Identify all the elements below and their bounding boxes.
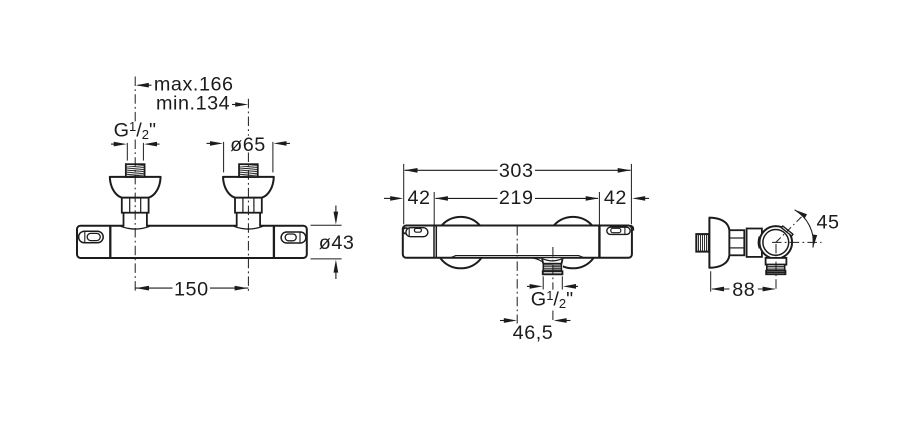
dimension 42 left outside arrow (384, 196, 403, 201)
svg-text:46,5: 46,5 (513, 322, 554, 344)
dimension ø43 label (319, 232, 355, 254)
right view: horizontal centerline (772, 241, 822, 243)
svg-text:ø43: ø43 (319, 232, 355, 254)
dimension 46,5 arrows (500, 318, 571, 323)
svg-text:219: 219 (499, 187, 534, 209)
dimension ø43 arrows (334, 206, 339, 280)
right view: body boss arc (758, 236, 759, 248)
dimension 219 label (499, 187, 534, 209)
svg-text:45: 45 (817, 212, 840, 234)
right view: vertical centerline (775, 244, 777, 292)
right view: outlet collar (766, 258, 787, 265)
svg-text:42: 42 (407, 187, 430, 209)
middle view: right joint line (598, 226, 600, 258)
dimension G1/2 left view arrows (111, 142, 160, 147)
dimension ø65 extension lines (224, 142, 273, 173)
left view: left stem adjusting sleeve (122, 198, 149, 213)
svg-text:ø65: ø65 (230, 134, 266, 156)
dimension min.134 arrow (232, 102, 248, 107)
dimension min.134 label (156, 93, 230, 115)
middle view: outlet union (532, 258, 563, 275)
right view: wall escutcheon bell (709, 218, 729, 268)
right view: valve body cap (747, 229, 762, 257)
middle view: left wall-flange emblem (403, 228, 428, 237)
svg-text:42: 42 (604, 187, 627, 209)
dimension 42 right label (604, 187, 627, 209)
dimension 150 line (135, 286, 248, 291)
dimension ø65 arrows (207, 141, 291, 146)
dimension max.166 arrow (136, 83, 152, 88)
dimension G1/2 middle extension lines (543, 276, 562, 289)
left view: left end-cap emblem (79, 231, 104, 243)
dimension 88 line (711, 287, 776, 292)
dimension 219 line (435, 196, 599, 201)
dimension 150 label (174, 278, 209, 300)
right view: outlet thread (767, 265, 785, 271)
right view: adjusting sleeve (729, 230, 744, 255)
dimension 42 left label (407, 187, 430, 209)
left view: right stem fillet arc in bar (234, 226, 263, 229)
right view: 45-degree axis line (776, 216, 802, 242)
middle view: outlet centerline (552, 247, 554, 323)
dimension 42 right outside arrow (632, 196, 649, 201)
left view: right stem neck (237, 213, 260, 227)
left view: left stem threaded inlet nipple (126, 164, 145, 177)
middle view: body centerline (516, 226, 518, 324)
dimension ø65 label (230, 134, 266, 156)
svg-text:303: 303 (499, 160, 534, 182)
left view: right end-cap joint line (273, 226, 275, 258)
svg-text:88: 88 (732, 279, 755, 301)
dimension ø43 extension lines (311, 225, 342, 259)
middle view: right handle knob circle (547, 217, 598, 268)
left view: left stem centerline (134, 77, 136, 292)
left view: left stem escutcheon (110, 177, 161, 198)
middle view: left handle knob circle (435, 217, 486, 268)
dimension G1/2 left view extension lines (127, 143, 143, 161)
dimension G1/2 left view label (114, 119, 156, 142)
svg-text:150: 150 (174, 278, 209, 300)
right view: knob tab chamfer (781, 226, 793, 236)
left view: right stem centerline (247, 99, 249, 291)
middle view: left joint double line (434, 226, 436, 258)
left view: right stem escutcheon (223, 177, 274, 198)
dimension 303 line (405, 168, 631, 173)
dimension 45 label (817, 212, 840, 234)
dimension G1/2 middle label (531, 288, 573, 311)
dimension max.166 label (154, 73, 234, 95)
left view: right stem adjusting sleeve (235, 198, 262, 213)
dimension G1/2 middle arrows (527, 284, 578, 289)
dimension 46,5 label (513, 322, 554, 344)
right view: knob inner circle (763, 230, 789, 256)
dimension 303 label (499, 160, 534, 182)
dimension 45-degree arc (795, 210, 818, 248)
left view: left stem fillet arc in bar (121, 226, 150, 229)
right view: outlet bottom lip (766, 271, 785, 274)
left view: left end-cap joint line (109, 226, 111, 258)
dimension 88 label (732, 279, 755, 301)
svg-text:min.134: min.134 (156, 93, 230, 115)
right view: knob outer circle (760, 226, 793, 259)
left view: right stem threaded inlet nipple (239, 164, 258, 177)
right view: wall thread nipple (696, 234, 709, 252)
dimension 42-219-42 extension lines (434, 192, 599, 225)
left view: left stem neck (124, 213, 147, 227)
middle view: mixer body (403, 226, 632, 258)
middle view: right wall-flange emblem (607, 226, 634, 235)
left view: mixer bar body (77, 226, 307, 258)
middle view: bottom groove (451, 256, 583, 258)
left view: right end-cap emblem (281, 232, 306, 243)
dimension 303 extension lines (404, 164, 632, 224)
dimension 88 extension line (710, 271, 712, 291)
